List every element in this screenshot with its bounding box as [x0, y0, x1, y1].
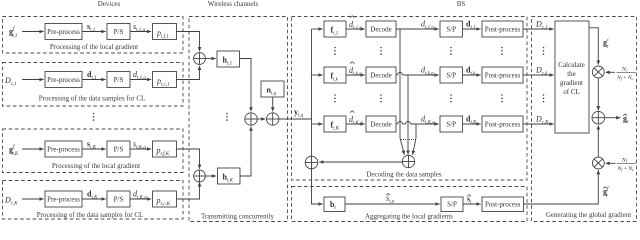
block Post-process (row1)	[482, 21, 523, 37]
wire p_tfK to adder2	[177, 149, 200, 169]
wire n_tq to adderB	[272, 97, 274, 111]
block S/P (row3)	[440, 116, 463, 132]
wire h_tK to adderA	[240, 127, 251, 176]
wire Decode3 branch down	[413, 124, 416, 155]
wire f_tk to Decode, label dhat_tka	[346, 74, 365, 76]
wire Decode3 to S/P with hops over x400 x408, label d_tKa	[396, 123, 398, 125]
wire xmul2 to adderE	[597, 125, 599, 157]
svg-text:Decode: Decode	[370, 26, 391, 34]
wire Post-process2 to Calculate, label D_ck	[523, 74, 554, 76]
wire Decode2 branch down	[407, 75, 409, 155]
xmul1 (weight N_c)	[592, 66, 604, 78]
wire Pre-process to P/S, label d_t1	[82, 79, 106, 81]
wire bus to f_t1	[312, 28, 323, 30]
svg-text:BS: BS	[457, 0, 466, 8]
block S/P (aggregating)	[441, 197, 463, 212]
adderA (superposition sum)	[245, 113, 257, 125]
dashed box: device K CL data processing	[3, 181, 184, 220]
wire g^f_t1 to Pre-process	[22, 31, 44, 33]
block Decode (row2)	[366, 67, 396, 83]
wire P/S to p_tfK, label s_tKa	[130, 148, 151, 150]
wire y_tq vertical bus	[311, 29, 313, 119]
label fraction Nc/(Nf+Nc)	[616, 67, 636, 82]
wire Decode1 branch down	[400, 29, 404, 155]
wire Decode1 to S/P, label d_t1a	[396, 28, 439, 30]
wire p_tcK to adder2	[177, 182, 200, 199]
wire S/P to Post-process, label d_tK bold	[463, 123, 481, 125]
wire adderB to node y_tq	[279, 118, 312, 120]
svg-text:Pre-process: Pre-process	[47, 196, 80, 204]
svg-text:Processing of the data samples: Processing of the data samples for CL	[37, 211, 144, 219]
wire Decode2 to S/P with hop over x400, label d_tka	[396, 74, 398, 76]
dots between BS row1 and row2	[334, 47, 544, 55]
wire P/S to p_tc1, label d_t1a	[130, 79, 151, 81]
dots between BS row2 and row3	[334, 94, 544, 102]
wire p_tf1 to adder1	[177, 32, 200, 52]
wire adderD to subtractor S	[319, 161, 402, 163]
svg-text:gradient: gradient	[560, 79, 583, 87]
wire bus to f_tk	[312, 74, 323, 76]
adderD (decoded signals sum)	[402, 155, 414, 167]
svg-text:S/P: S/P	[446, 26, 456, 34]
block Pre-process (row3)	[45, 141, 82, 157]
wire adderA to adderB	[257, 118, 265, 120]
svg-text:Nf + Nc: Nf + Nc	[617, 166, 635, 172]
block Post-process (row3)	[482, 116, 523, 132]
block p_tf1	[153, 24, 177, 40]
wire h_t1 to adderA	[240, 59, 252, 112]
block P/S (row1)	[107, 24, 130, 40]
svg-text:Post-process: Post-process	[485, 201, 521, 209]
dashed box: device K local-gradient processing	[3, 129, 184, 173]
block Pre-process (row1)	[45, 24, 82, 40]
svg-text:Post-process: Post-process	[485, 26, 521, 34]
dashed box: wireless channels / transmitting concurrently	[189, 17, 288, 222]
svg-text:Decode: Decode	[370, 72, 391, 80]
wire fraction to xmul2	[606, 162, 616, 164]
block h_t1 (channel)	[217, 51, 240, 67]
svg-text:Pre-process: Pre-process	[47, 146, 80, 154]
svg-text:Pre-process: Pre-process	[47, 76, 80, 84]
svg-text:Aggregating the local gradient: Aggregating the local gradients	[365, 213, 453, 221]
wire S/P to Post-process, label shat_t bold	[463, 203, 481, 205]
svg-text:S/P: S/P	[446, 121, 456, 129]
wire Post-process to xmul2 (up right column)	[524, 170, 599, 204]
wire fraction to xmul1	[606, 71, 615, 73]
svg-text:Transmitting concurrently: Transmitting concurrently	[201, 212, 275, 220]
svg-text:Processing of the local gradie: Processing of the local gradient	[50, 43, 138, 51]
dotted ellipsis between branch lines	[401, 139, 407, 141]
wire P/S to p_tf1, label s_t1a	[130, 31, 151, 33]
dashed box: device 1 local-gradient processing	[3, 17, 184, 54]
svg-text:Nc: Nc	[621, 67, 628, 73]
dots between device 1 and device K	[93, 113, 95, 121]
svg-text:Nf + Nc: Nf + Nc	[616, 75, 634, 81]
svg-text:P/S: P/S	[114, 196, 124, 204]
block Post-process (row2)	[482, 67, 523, 83]
xmul2 (weight N_f)	[592, 157, 604, 169]
svg-text:the: the	[567, 70, 576, 78]
block P/S (row2)	[107, 72, 130, 88]
wire Pre-process to P/S, label s_t1	[82, 31, 106, 33]
svg-text:Nf: Nf	[621, 158, 628, 164]
svg-text:Pre-process: Pre-process	[47, 28, 80, 36]
wire p_tc1 to adder1	[177, 66, 200, 80]
wire Pre-process to P/S, label d_tK	[82, 198, 106, 200]
wire adder1 to h_t1	[205, 58, 215, 60]
adder1 (device 1 sum)	[194, 53, 206, 65]
block f_tK (matched filter)	[324, 116, 346, 132]
subtractor S (interference cancellation)	[305, 156, 318, 169]
block Pre-process (row4)	[45, 191, 82, 207]
block S/P (row1)	[440, 21, 463, 37]
wire f_tK to Decode, label dhat_tKa	[346, 123, 365, 125]
dashed box: device 1 CL data processing	[3, 63, 184, 107]
adderE (global gradient sum)	[592, 111, 605, 124]
svg-text:Decode: Decode	[370, 121, 391, 129]
dashed box: generating the global gradient	[532, 17, 637, 222]
wire f_t1 to Decode, label dhat_t1a	[346, 28, 365, 30]
wire Pre-process to P/S, label s_tK	[82, 148, 106, 150]
wire adderE to node ghat_t	[605, 117, 621, 119]
wire g^f_tK to Pre-process	[22, 148, 44, 150]
block Post-process (aggregating)	[482, 197, 524, 212]
block b_t (aggregation beamformer)	[324, 197, 345, 212]
dots left of adderA (other devices)	[226, 113, 228, 121]
block Pre-process (row2)	[45, 72, 82, 88]
svg-text:P/S: P/S	[114, 76, 124, 84]
svg-text:Processing of the local gradie: Processing of the local gradient	[52, 162, 140, 170]
svg-text:Processing of the data samples: Processing of the data samples for CL	[39, 95, 146, 103]
block P/S (row3)	[107, 141, 130, 157]
label fraction Nf/(Nf+Nc)	[617, 158, 637, 173]
wire subtractor S to b_t	[312, 169, 323, 204]
block Decode (row3)	[366, 116, 396, 132]
dashed box: decoding the data samples	[292, 17, 528, 181]
block P/S (row4)	[107, 191, 130, 207]
wire P/S to p_tcK, label d_tKa	[130, 198, 151, 200]
svg-text:Decoding the data samples: Decoding the data samples	[366, 171, 442, 179]
block p_tfK	[153, 141, 177, 157]
svg-text:Post-process: Post-process	[485, 121, 521, 129]
dashed box: aggregating the local gradients	[292, 187, 528, 222]
svg-text:Calculate: Calculate	[558, 61, 584, 69]
svg-text:P/S: P/S	[114, 146, 124, 154]
adder2 (device K sum)	[194, 170, 206, 182]
svg-text:P/S: P/S	[114, 28, 124, 36]
svg-text:of CL: of CL	[563, 88, 580, 96]
svg-text:Post-process: Post-process	[485, 72, 521, 80]
wire adder2 to h_tK	[205, 175, 216, 177]
wire Post-process1 to Calculate, label D_c1	[523, 28, 554, 30]
block Decode (row1)	[366, 21, 396, 37]
block f_t1 (matched filter)	[324, 21, 346, 37]
block h_tK (channel)	[218, 168, 241, 184]
wire D_c1 to Pre-process	[22, 79, 44, 81]
wire b_t to S/P, label shat_ta	[345, 203, 440, 205]
block Calculate the gradient of CL	[555, 21, 589, 133]
svg-text:Devices: Devices	[98, 0, 121, 8]
svg-text:Wireless channels: Wireless channels	[208, 0, 259, 8]
block f_tk (matched filter)	[324, 67, 346, 83]
wire Post-process3 to Calculate, label D_cK	[523, 123, 554, 125]
wire S/P to Post-process, label d_tk bold	[463, 74, 481, 76]
svg-text:S/P: S/P	[447, 201, 457, 209]
svg-text:Generating the global gradient: Generating the global gradient	[546, 211, 631, 219]
block S/P (row2)	[440, 67, 463, 83]
wire xmul1 to adderE	[597, 78, 599, 110]
block p_tcK	[153, 191, 177, 207]
svg-text:S/P: S/P	[446, 72, 456, 80]
wire bus to f_tK	[312, 123, 323, 125]
wire D_cK to Pre-process	[22, 198, 44, 200]
wire S/P to Post-process, label d_t1 bold	[463, 28, 481, 30]
block p_tc1	[153, 72, 177, 88]
wire Calculate to xmul1, node g^c_t	[589, 28, 598, 65]
block n_tq (noise)	[261, 81, 284, 97]
adderB (noise add)	[267, 113, 279, 125]
